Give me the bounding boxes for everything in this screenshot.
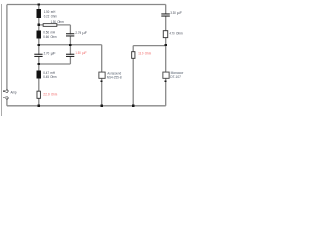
- speaker U1 Aurasound: [98, 72, 105, 79]
- wire bottom rail: [7, 105, 166, 107]
- capacitor 2.79 uF: [69, 34, 71, 35]
- svg-text:3.30µF: 3.30µF: [170, 10, 182, 15]
- inductor L1: [37, 9, 41, 18]
- svg-text:13.0Ohm: 13.0Ohm: [138, 51, 151, 56]
- inductor L3: [37, 70, 41, 78]
- wire woofer branch vertical: [38, 5, 40, 106]
- resistor 22.0 Ohm (red label): [37, 91, 41, 99]
- capacitor 1.50 uF (red label): [69, 55, 71, 56]
- node dot bottom woofer branch: [38, 105, 40, 107]
- inductor L2: [37, 31, 41, 39]
- wire 13 ohm top: [133, 45, 166, 47]
- wire amp minus drop: [6, 99, 8, 106]
- wire RC branch horizontal: [39, 24, 71, 26]
- svg-text:NS4-255-8: NS4-255-8: [107, 75, 122, 79]
- wire amp plus riser: [6, 5, 8, 91]
- speaker U2 tweeter: [162, 72, 169, 79]
- svg-text:1.50µF: 1.50µF: [75, 50, 87, 55]
- wire 1.50uF drop: [69, 45, 71, 64]
- svg-text:0.22Ohm: 0.22Ohm: [44, 14, 57, 19]
- wire tweeter column: [165, 5, 167, 106]
- node dot tweeter shunt: [165, 44, 167, 46]
- wire RC branch drop: [69, 25, 71, 45]
- node D dot: [38, 63, 40, 65]
- capacitor 3.30 uF tweeter: [165, 15, 167, 16]
- panel left border: [1, 4, 3, 116]
- svg-text:2.79µF: 2.79µF: [75, 30, 87, 35]
- amp terminal minus: [6, 97, 8, 100]
- svg-text:Amp: Amp: [11, 90, 18, 95]
- node dot RC-railC: [69, 44, 71, 46]
- wire top rail: [7, 4, 166, 6]
- capacitor 2.70 uF: [38, 55, 40, 56]
- wire rail D: [39, 63, 71, 65]
- node dot bottom aurasound: [101, 105, 103, 107]
- amp terminal plus: [6, 90, 8, 93]
- resistor 13.0 Ohm (red label): [131, 51, 135, 59]
- svg-text:DT-107: DT-107: [170, 75, 181, 79]
- node C dot: [38, 44, 40, 46]
- wire 13 ohm drop: [132, 46, 134, 106]
- node dot top junction: [38, 3, 40, 5]
- svg-text:0.66Ohm: 0.66Ohm: [43, 34, 57, 39]
- wire woofer feed drop: [101, 45, 103, 106]
- resistor 4.70 Ohm: [163, 30, 168, 38]
- svg-text:22.0Ohm: 22.0Ohm: [43, 91, 57, 96]
- node B dot: [38, 24, 40, 26]
- wire rail C: [39, 44, 102, 46]
- node dot bottom 13ohm: [132, 105, 134, 107]
- svg-text:2.70µF: 2.70µF: [44, 51, 57, 56]
- svg-text:0.45Ohm: 0.45Ohm: [43, 74, 57, 79]
- svg-text:4.70Ohm: 4.70Ohm: [170, 30, 184, 35]
- svg-text:1.50Ohm: 1.50Ohm: [51, 19, 65, 24]
